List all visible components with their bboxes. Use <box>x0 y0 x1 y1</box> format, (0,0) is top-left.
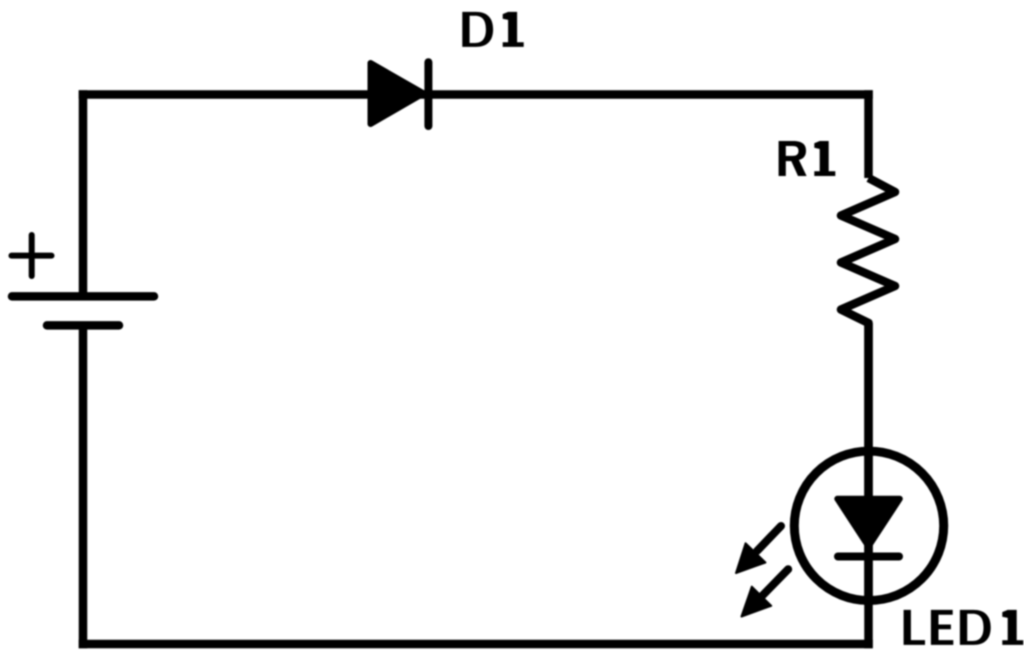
label R1 <box>779 141 836 176</box>
wire: R1 bottom lead through LED1 to bottom-right corner <box>864 323 873 648</box>
diode D1: cathode bar <box>424 62 432 126</box>
diode D1: anode triangle <box>371 63 424 124</box>
LED1: light emission arrow (upper) <box>736 526 781 573</box>
wire: top net from battery + through diode D1 to R1 <box>79 90 873 99</box>
LED1: envelope circle <box>794 451 943 600</box>
battery BT1: negative (short) plate <box>47 321 119 330</box>
LED1: anode triangle <box>837 499 900 547</box>
label D1 <box>462 12 523 47</box>
LED1: light emission arrow (lower) <box>742 569 789 616</box>
battery BT1: positive (long) plate <box>12 292 154 301</box>
battery BT1: plus polarity mark <box>12 235 52 276</box>
resistor R1: zigzag body with leads <box>841 178 895 605</box>
wire: battery positive terminal up to top-left corner <box>79 90 88 296</box>
label LED1 <box>904 610 1024 645</box>
wire: bottom net from LED1 cathode back to battery <box>79 640 873 649</box>
LED1: cathode bar <box>838 553 899 561</box>
wire: battery negative terminal down to bottom-left corner <box>79 325 88 648</box>
wire: R1 top lead from top-right corner <box>864 90 873 178</box>
